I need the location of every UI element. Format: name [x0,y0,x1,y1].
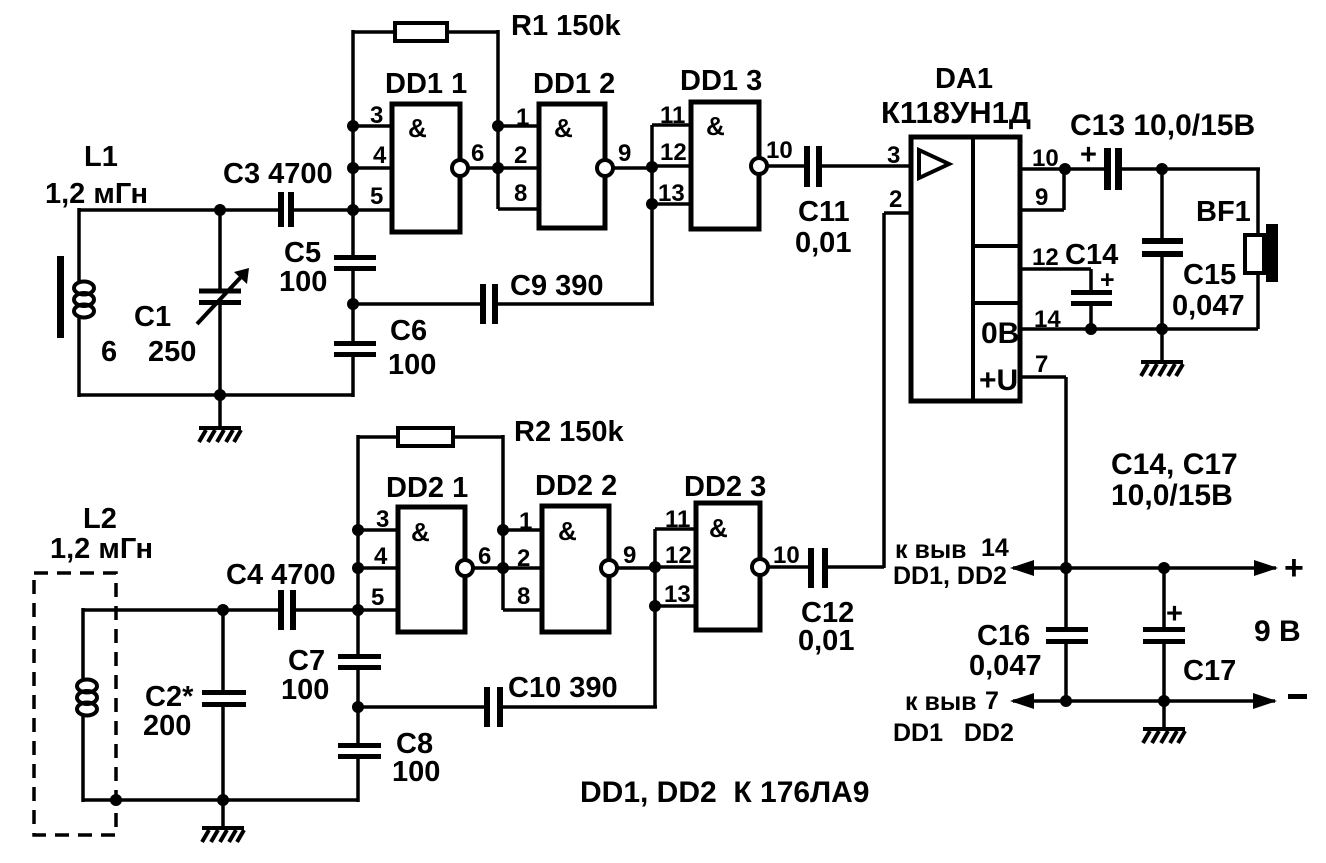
svg-text:C15: C15 [1183,259,1236,291]
wire C14 bottom [1089,306,1093,329]
svg-text:C4 4700: C4 4700 [226,559,336,591]
ground (C15) [1141,329,1183,376]
op-amp gate DD1.3 [691,102,767,229]
svg-text:14: 14 [981,534,1009,562]
svg-text:2: 2 [517,545,530,572]
node junction C9 branch [347,298,359,310]
svg-text:DD1 2: DD1 2 [533,68,615,100]
svg-text:11: 11 [660,102,685,129]
svg-text:200: 200 [143,710,191,742]
ground (L2) [202,800,244,842]
wire L2 bottom [83,798,358,802]
op-amp gate DD1.2 [539,104,613,228]
wire pin3 stub [353,124,392,128]
node junction pin10/pin9 [1059,163,1071,175]
svg-text:DD1, DD2: DD1, DD2 [893,562,1007,590]
node junction C17 top [1158,562,1170,574]
svg-text:C14, C17: C14, C17 [1111,448,1238,481]
svg-text:&: & [709,513,728,543]
svg-text:C9 390: C9 390 [510,270,604,302]
svg-text:100: 100 [279,266,327,298]
arrow left (to pin 7) [1010,693,1034,709]
svg-text:BF1: BF1 [1196,196,1251,228]
svg-text:C7: C7 [288,645,325,677]
svg-text:L2: L2 [83,503,117,535]
capacitor C10 [358,687,657,727]
wire C3 to DD1.1 pin5 [294,208,392,212]
wire DD1.1 output [468,166,539,170]
svg-text:DA1: DA1 [935,63,993,95]
node junction pin13 DD1.3 [646,198,658,210]
wire DD2.2 output [617,566,657,570]
svg-text:12: 12 [660,139,687,166]
svg-text:C11: C11 [798,196,850,228]
wire L1 bottom [79,393,353,397]
wire DD1.2 output [613,166,654,170]
node junction C15 top [1156,163,1168,175]
svg-text:0,047: 0,047 [1172,290,1245,322]
svg-text:C5: C5 [284,237,321,269]
svg-text:3: 3 [376,506,389,533]
wire pin4 stub [353,166,392,170]
svg-text:1,2 мГн: 1,2 мГн [45,178,148,210]
svg-text:100: 100 [281,674,329,706]
wire L2 top [83,608,278,612]
svg-text:DD2 1: DD2 1 [386,472,468,504]
node junction pin5/C3 [347,204,359,216]
svg-text:0,01: 0,01 [798,625,854,657]
op-amp gate DD1.1 [392,104,468,232]
svg-text:к выв: к выв [895,536,967,564]
svg-text:DD1 DD2: DD1 DD2 [893,719,1014,747]
node junction C16 bottom [1060,695,1072,707]
svg-text:DD1, DD2 К 176ЛА9: DD1, DD2 К 176ЛА9 [580,776,869,809]
wire DA1 pin2 [884,211,911,215]
svg-text:0,047: 0,047 [969,650,1042,682]
wire left rail of DD2.1 [356,435,360,610]
svg-text:3: 3 [887,142,900,169]
svg-text:+: + [1166,598,1183,630]
node junction pin12 DD2.3 [649,561,661,573]
svg-text:3: 3 [370,102,383,129]
wire pin11 stub [655,527,696,531]
capacitor C14 [1071,290,1112,306]
svg-text:DD1 3: DD1 3 [680,65,762,97]
svg-text:&: & [411,517,430,547]
speaker BF1 [1245,224,1278,282]
wire L1 left vertical [77,208,81,282]
svg-text:9: 9 [618,140,631,167]
plus rail wire [1013,566,1276,570]
wire L2 left vertical [81,608,85,680]
wire DD2.3 left rail [653,529,657,707]
IC DA1 [911,137,1020,401]
wire C4 to DD2.1 pin5 [296,608,398,612]
node junction pin5/C4 [352,604,364,616]
capacitor C6 [334,341,376,357]
node junction pin4 DD2.1 [352,562,364,574]
wire pin13 stub [652,202,691,206]
inductor L2 coil [77,680,97,716]
wire DD2.1 output [473,566,542,570]
svg-text:0,01: 0,01 [795,227,851,259]
node junction C15 bottom [1156,323,1168,335]
svg-text:0В: 0В [981,317,1019,350]
svg-text:10,0/15В: 10,0/15В [1111,479,1233,512]
inductor L1 [57,256,94,338]
capacitor C15 [1142,238,1183,257]
svg-text:100: 100 [388,349,436,381]
wire pin1 stub DD2.2 [503,528,542,532]
wire left rail of DD1.1 [351,30,355,210]
wire pin8 stub DD2.2 [503,608,542,612]
node junction C2 top [217,604,229,616]
svg-text:DD2 2: DD2 2 [535,470,617,502]
svg-text:11: 11 [665,506,690,533]
svg-text:9 В: 9 В [1254,615,1301,648]
svg-text:5: 5 [371,584,384,611]
node junction C2 bottom [217,794,229,806]
svg-text:2: 2 [889,186,902,213]
node junction pin4 [347,162,359,174]
node junction DD2.1 out / pin2 [497,562,509,574]
wire pin3 stub DD2.1 [358,528,398,532]
svg-text:L1: L1 [84,141,118,173]
resistor R2 [358,428,503,446]
svg-text:R1 150k: R1 150k [511,10,622,42]
svg-text:250: 250 [148,336,196,368]
capacitor C1 (variable) [197,210,249,395]
ground (C17) [1143,701,1185,743]
wire pin8 stub DD1.2 [498,207,539,211]
svg-text:R2 150k: R2 150k [514,416,625,448]
svg-text:13: 13 [664,581,691,608]
svg-text:К118УН1Д: К118УН1Д [881,95,1031,130]
op-amp gate DD2.1 [398,507,473,632]
arrow left (to pin 14) [1010,560,1034,576]
node junction pin3 DD2.1 [352,524,364,536]
capacitor C17 [1143,568,1185,701]
svg-text:C2*: C2* [145,681,194,713]
svg-text:2: 2 [514,142,527,169]
wire DA1 pin9 [1020,208,1064,212]
svg-text:DD2 3: DD2 3 [684,471,766,503]
svg-text:C10 390: C10 390 [508,672,618,704]
wire DA1 pin7 [1020,375,1066,379]
svg-text:DD1 1: DD1 1 [385,68,467,100]
capacitor C16 [1046,568,1088,701]
capacitor C7 [338,654,381,670]
svg-text:C3 4700: C3 4700 [223,158,333,190]
capacitor C12 [768,548,884,588]
svg-text:1,2 мГн: 1,2 мГн [50,533,153,565]
svg-text:6: 6 [471,140,484,167]
wire L1 top to C3 [79,208,278,212]
node junction L1/C1 top [214,204,226,216]
wire pin4 stub DD2.1 [358,566,398,570]
minus terminal label [1288,694,1307,699]
svg-text:C1: C1 [134,301,171,333]
svg-text:9: 9 [623,542,636,569]
op-amp gate DD2.3 [696,503,768,630]
svg-text:7: 7 [1035,351,1048,378]
svg-text:+: + [1284,549,1304,587]
wire pin13 stub [655,604,696,608]
node junction C17 bottom [1158,695,1170,707]
capacitor C11 [767,146,911,187]
svg-text:к выв: к выв [905,688,977,716]
arrow right (plus) [1254,560,1278,576]
svg-text:6: 6 [101,336,117,368]
svg-text:100: 100 [392,756,440,788]
svg-text:+: + [1080,139,1097,171]
capacitor C8 [338,743,381,759]
wire C13 to BF1 [1122,167,1260,171]
node junction pin12 DD1.3 [646,161,658,173]
capacitor C2 [202,610,246,800]
svg-text:4: 4 [374,543,388,570]
wire DA1 pin10 [1020,167,1104,171]
svg-text:8: 8 [517,583,530,610]
ground (top-left) [199,395,241,442]
svg-text:&: & [554,113,573,143]
svg-text:C17: C17 [1183,655,1236,687]
svg-text:6: 6 [478,543,491,570]
wire R1 right rail [496,30,500,209]
arrow right (minus) [1253,693,1277,709]
svg-text:12: 12 [1032,244,1059,271]
svg-text:5: 5 [370,183,383,210]
wire BF1 right vertical [1256,169,1260,237]
wire R2 right rail [501,435,505,610]
svg-text:C13 10,0/15В: C13 10,0/15В [1070,109,1255,142]
svg-text:&: & [408,113,427,143]
svg-text:8: 8 [514,180,527,207]
wire pin12 stub [655,565,696,569]
wire DD1.3 left rail [650,125,654,304]
svg-text:+U: +U [979,364,1018,397]
svg-text:12: 12 [665,542,692,569]
svg-text:9: 9 [1035,184,1048,211]
capacitor C4 [278,590,296,630]
minus rail wire [1013,699,1275,703]
svg-text:&: & [558,516,577,546]
resistor R1 [353,23,498,41]
wire DA1 pin12 [1020,267,1091,271]
node junction pin7 rail / C16 [1060,562,1072,574]
node junction C10 branch [352,701,364,713]
inductor L2 (screened, dashed box) [34,573,116,835]
svg-text:&: & [706,111,725,141]
node junction pin1 DD1.2 [492,120,504,132]
svg-text:7: 7 [985,687,999,715]
svg-text:1: 1 [516,104,529,131]
capacitor C3 [278,192,294,227]
wire pin1 stub DD1.2 [498,124,539,128]
C15 wires [1160,169,1164,239]
node junction pin1 DD2.2 [497,524,509,536]
node junction dashed-box / bottom wire [110,794,122,806]
capacitor C9 [353,284,654,324]
op-amp gate DD2.2 [542,506,617,632]
svg-text:C6: C6 [390,315,427,347]
svg-text:1: 1 [519,508,532,535]
wire pin11 stub [652,123,691,127]
node junction C1 bottom [214,389,226,401]
svg-text:C14: C14 [1065,239,1118,271]
node junction pin3 [347,120,359,132]
node junction pin13 DD2.3 [649,600,661,612]
svg-text:10: 10 [766,137,793,164]
svg-text:13: 13 [658,180,685,207]
svg-text:4: 4 [373,142,387,169]
node junction DD1.1 out / pin2 [492,162,504,174]
capacitor C13 [1104,148,1122,190]
svg-text:10: 10 [773,542,800,569]
capacitor C5 [334,255,376,271]
wire pin12 stub [652,164,691,168]
wire DA1 pin14 [1020,327,1258,331]
node junction C14/pin14 [1085,323,1097,335]
svg-text:C16: C16 [977,620,1030,652]
